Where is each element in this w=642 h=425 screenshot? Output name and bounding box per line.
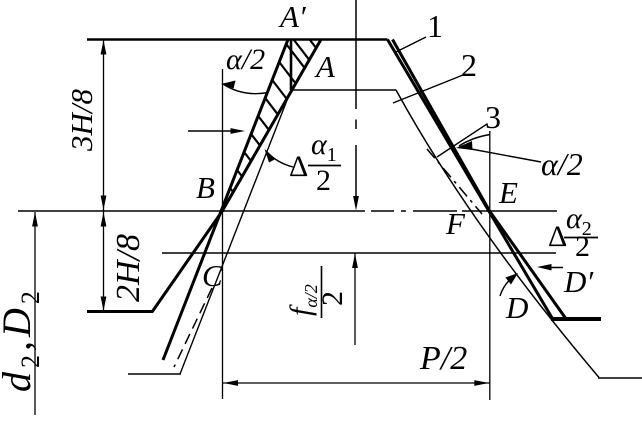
pitch line solid left [18,210,365,212]
leader to line 2 [393,75,463,103]
crest line (major diameter) [87,38,388,41]
line 3 dash-dot [427,149,482,214]
dashed left line [174,288,212,367]
extension line through E [489,131,491,400]
vertical segment at A' [290,40,293,91]
delta alpha2/2 arc arrow lower [500,275,516,297]
dimension line d2,D2 [34,212,36,415]
extension line through B [222,69,224,399]
alpha/2 right arrowhead [456,141,473,150]
deviated right flank thick [393,40,567,320]
horizontal arrow at left flank [188,130,238,132]
leader to line 1 [396,37,426,52]
alpha/2 left arc and arrowhead [223,84,268,94]
actual profile left flank thin [180,90,291,374]
svg-text:α/2: α/2 [226,43,265,76]
pitch line solid right [462,210,557,212]
svg-text:B: B [196,170,215,205]
svg-text:Δ: Δ [548,220,567,253]
leader to line 3 [437,124,487,157]
alpha/2 right arc [459,135,490,147]
svg-text:3: 3 [485,99,501,135]
delta alpha1/2 leader arc and arrowhead [266,151,293,167]
svg-text:3H/8: 3H/8 [64,89,99,153]
actual profile crest line 2 [291,89,396,91]
actual profile right flank thin [396,90,599,378]
svg-text:2: 2 [316,291,349,306]
svg-text:2: 2 [461,47,477,83]
f dimension lower arrow [354,254,356,346]
deviated left flank thick [163,40,288,361]
svg-text:Δ: Δ [289,150,308,183]
left root flat thick [87,310,153,313]
svg-text:2: 2 [575,230,590,263]
svg-text:A: A [314,49,336,84]
centerline dash-dot [355,0,357,109]
svg-text:F: F [445,206,466,241]
bottom right thin flat [598,377,642,379]
right root flat thick [551,317,601,321]
svg-text:P/2: P/2 [419,340,467,377]
svg-text:α/2: α/2 [541,146,583,182]
centerline arrowhead at pitch [353,196,359,211]
nominal left flank thick [152,40,321,313]
nominal right flank thick [388,40,554,320]
svg-text:A′: A′ [278,0,307,34]
pitch line dash-dot middle [371,210,394,212]
svg-text:E: E [498,175,518,210]
svg-text:2: 2 [316,164,331,197]
svg-text:D′: D′ [563,264,594,299]
svg-text:C: C [202,258,223,293]
dimension line 3H/8 and 2H/8 [103,40,105,312]
alpha/2 right leader line [463,148,541,163]
delta alpha2/2 arrow left-pointing [545,267,563,269]
P/2 dimension [223,382,490,384]
hatching of wedge [230,40,316,192]
svg-text:2H/8: 2H/8 [110,234,147,302]
svg-text:D: D [505,290,528,325]
svg-text:1: 1 [427,8,443,44]
bottom left thin flat [128,373,181,375]
compensated pitch line [162,252,556,254]
